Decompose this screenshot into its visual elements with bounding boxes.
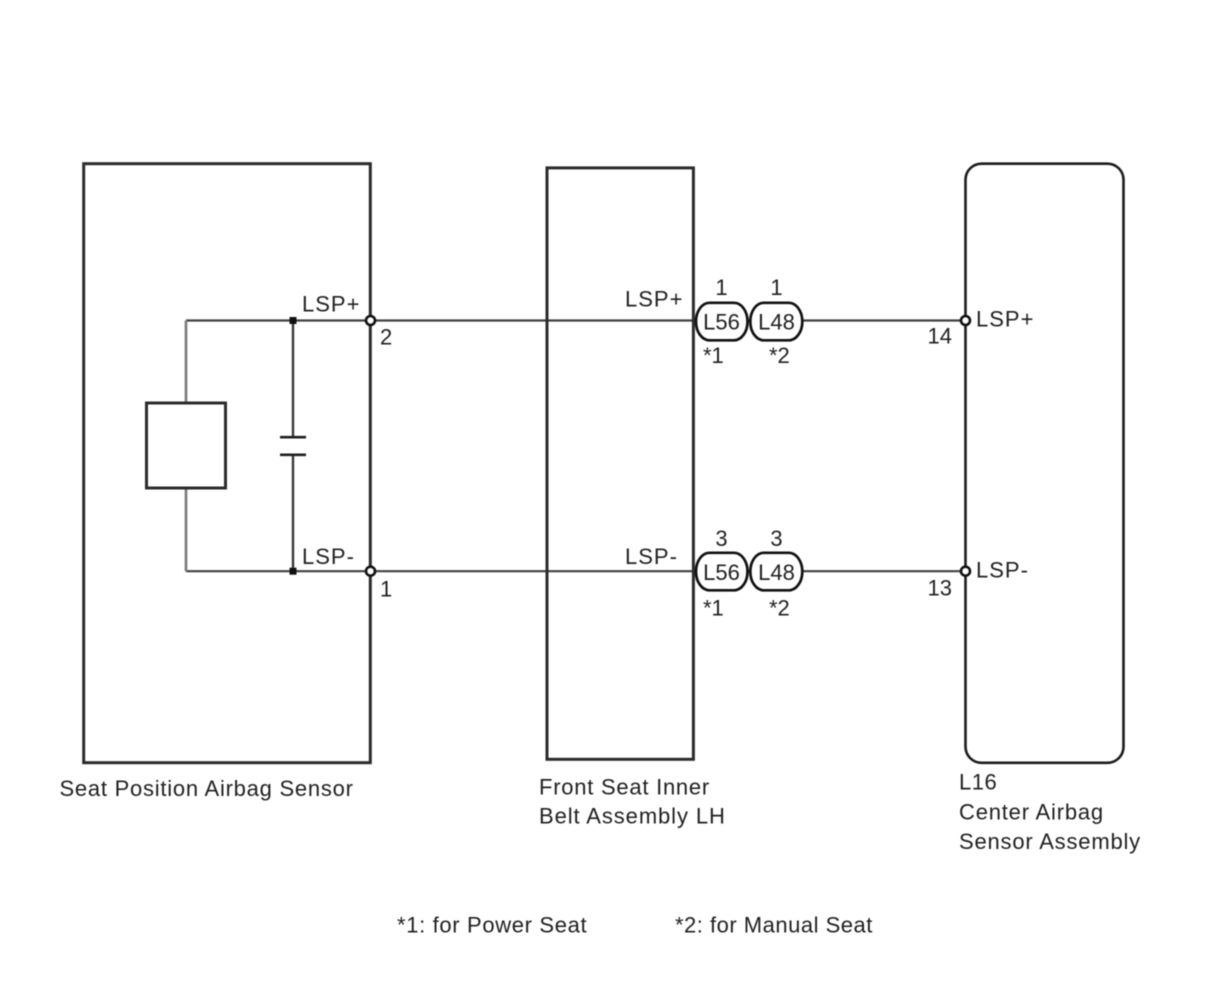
svg-text:*2: *2: [769, 343, 790, 368]
svg-text:LSP+: LSP+: [976, 307, 1034, 332]
connector oval L56 pin 3 (LSP- row): [696, 553, 748, 591]
wire LSP+ net (horizontal): [186, 319, 964, 321]
svg-text:2: 2: [380, 325, 392, 350]
svg-text:Belt Assembly LH: Belt Assembly LH: [539, 804, 726, 829]
svg-text:LSP+: LSP+: [302, 292, 360, 317]
svg-text:*1: *1: [703, 343, 724, 368]
connector oval L48 pin 1 (LSP+ row): [750, 303, 802, 341]
connector oval L48 pin 3 (LSP- row): [750, 553, 802, 591]
box: Front Seat Inner Belt Assembly LH: [547, 168, 693, 759]
terminal circle pin 14 (right box LSP+): [961, 316, 970, 325]
svg-text:L48: L48: [758, 310, 795, 335]
junction dot on LSP-: [290, 568, 297, 575]
svg-text:1: 1: [770, 275, 782, 300]
junction dot on LSP+: [290, 317, 297, 324]
terminal circle pin 13 (right box LSP-): [961, 567, 970, 576]
svg-text:L16: L16: [959, 770, 997, 795]
svg-text:L56: L56: [703, 310, 740, 335]
capacitor C (top plate): [280, 436, 306, 439]
capacitor C (bottom plate): [280, 453, 306, 456]
sensor square element: [147, 403, 226, 488]
wire capacitor top lead: [292, 321, 294, 438]
svg-text:3: 3: [715, 526, 727, 551]
wire LSP- net (horizontal): [186, 570, 964, 572]
svg-text:Center Airbag: Center Airbag: [959, 800, 1104, 825]
svg-text:3: 3: [770, 526, 782, 551]
box: Seat Position Airbag Sensor: [84, 164, 371, 763]
connector oval L56 pin 1 (LSP+ row): [696, 303, 748, 341]
svg-text:L48: L48: [758, 560, 795, 585]
terminal circle pin 2 (left box LSP+): [366, 316, 375, 325]
box: L16 Center Airbag Sensor Assembly (rounded): [966, 164, 1124, 763]
wire vertical branch to sensor square: [185, 321, 188, 404]
svg-text:Sensor Assembly: Sensor Assembly: [959, 829, 1141, 854]
svg-text:LSP-: LSP-: [976, 558, 1029, 583]
svg-text:LSP+: LSP+: [625, 287, 683, 312]
svg-text:LSP-: LSP-: [302, 544, 355, 569]
svg-text:*1: *1: [703, 596, 724, 621]
svg-text:Front Seat Inner: Front Seat Inner: [539, 775, 710, 800]
svg-text:*2: *2: [769, 596, 790, 621]
svg-text:*2: for Manual Seat: *2: for Manual Seat: [675, 913, 873, 938]
wire capacitor bottom lead: [292, 455, 294, 571]
svg-text:1: 1: [380, 577, 392, 602]
svg-text:Seat Position Airbag Sensor: Seat Position Airbag Sensor: [60, 776, 354, 801]
terminal circle pin 1 (left box LSP-): [366, 567, 375, 576]
svg-text:13: 13: [928, 576, 952, 601]
wire from sensor square to LSP-: [185, 488, 188, 571]
svg-text:1: 1: [715, 275, 727, 300]
svg-text:*1: for Power Seat: *1: for Power Seat: [397, 913, 587, 938]
svg-text:L56: L56: [703, 560, 740, 585]
svg-text:LSP-: LSP-: [625, 544, 678, 569]
svg-text:14: 14: [928, 324, 952, 349]
